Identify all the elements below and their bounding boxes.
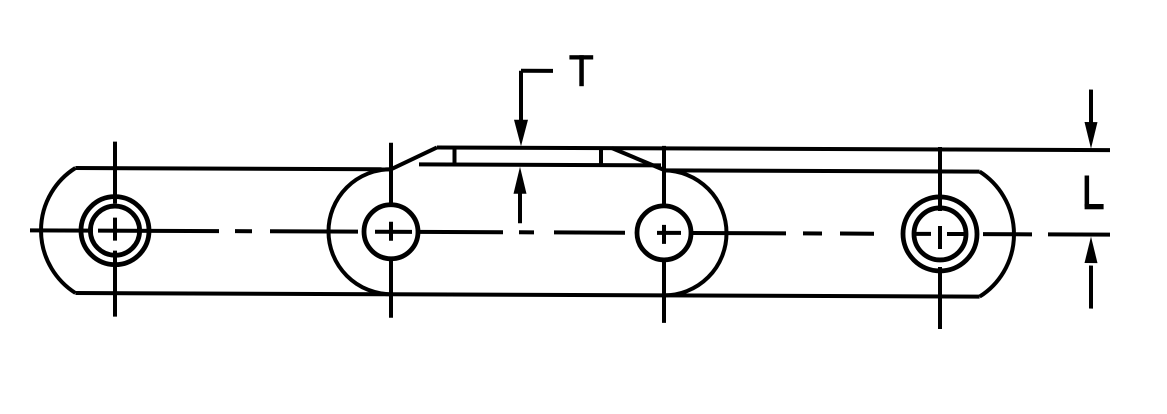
pin P4 vertical centerline lower segment [938, 267, 942, 329]
inner link right end arc [664, 170, 727, 295]
horizontal centerline long dash into middle link [270, 229, 358, 233]
horizontal centerline long dash before P4 [840, 232, 874, 236]
inner link plate edge view: left slant [392, 147, 437, 169]
pin P2 vertical center dash [389, 222, 393, 241]
dimension label T (drawn as vector strokes) [569, 55, 593, 86]
pin P4 vertical center dash [938, 226, 942, 249]
pin P2 circle [364, 205, 418, 259]
right outer link plate bottom edge [664, 295, 980, 296]
horizontal centerline dot between P1 and P2 [235, 229, 252, 233]
pin P4 vertical centerline upper segment [938, 147, 942, 211]
left outer link plate top edge [75, 168, 391, 169]
inner link plate edge view: right slant [612, 148, 665, 170]
horizontal centerline long dash after P2 [417, 230, 503, 234]
inner link plate edge view: left tick [453, 148, 457, 165]
left outer link plate bottom edge [75, 293, 391, 294]
horizontal centerline center dash of pin P3 [657, 231, 681, 235]
pin P1 vertical center dash [113, 218, 117, 241]
horizontal centerline right extension segment (L dimension) [1048, 232, 1110, 236]
horizontal centerline dot between P3 and P4 [803, 231, 822, 235]
dimension L upper arrowhead pointing down [1085, 122, 1098, 149]
horizontal centerline short dash right of pin P4 center [947, 232, 964, 236]
pin P4 bushing outer circle [903, 197, 977, 271]
pin P1 inner circle [90, 206, 139, 255]
horizontal centerline center dash of pin P2 [375, 230, 412, 234]
inner link left end arc [329, 169, 391, 294]
dimension L lower arrowhead pointing up [1085, 237, 1098, 264]
inner link plate edge view: bottom edge [419, 162, 661, 167]
dimension T lower arrow shaft [518, 190, 522, 223]
pin P1 vertical centerline lower segment [113, 251, 117, 317]
horizontal centerline dot between P2 and P3 [519, 230, 534, 234]
pin P1 bushing outer circle [81, 197, 149, 265]
horizontal chain centerline (dash-dot), left end segment [30, 228, 93, 232]
right outer link plate top edge [664, 170, 980, 171]
horizontal centerline dash after P4 [983, 232, 1032, 236]
horizontal centerline long dash after P3 [692, 231, 786, 235]
dimension L lower arrow shaft [1089, 266, 1093, 309]
horizontal centerline long dash before P3 [554, 230, 625, 234]
dimension T upper arrowhead pointing down [514, 120, 528, 147]
pin P3 vertical centerline lower segment [662, 261, 666, 323]
pin P3 circle [637, 206, 691, 260]
dimension T lower arrowhead pointing up [514, 167, 527, 194]
dimension L upper arrow shaft [1089, 90, 1093, 125]
pin P2 vertical centerline lower segment [389, 257, 393, 318]
pin P4 inner circle [914, 208, 966, 260]
inner link bottom edge [391, 294, 664, 295]
inner link plate edge view: top edge with right extension line for L [437, 147, 1110, 150]
pin P3 vertical center dash [662, 225, 666, 244]
left outer link plate end arc [41, 168, 75, 293]
inner link plate edge view: right tick [599, 148, 603, 165]
pin P2 vertical centerline upper segment [389, 143, 393, 203]
horizontal centerline long dash through pin P1 [98, 229, 219, 233]
dimension T leader horizontal [521, 69, 553, 73]
dimension label L (drawn as vector strokes) [1085, 176, 1104, 210]
right outer link plate end arc [980, 172, 1014, 297]
dimension T leader vertical shaft [519, 71, 523, 123]
pin P3 vertical centerline upper segment [662, 146, 666, 208]
horizontal centerline short dash left of pin P4 center [912, 232, 931, 236]
pin P1 vertical centerline upper segment [113, 142, 117, 204]
